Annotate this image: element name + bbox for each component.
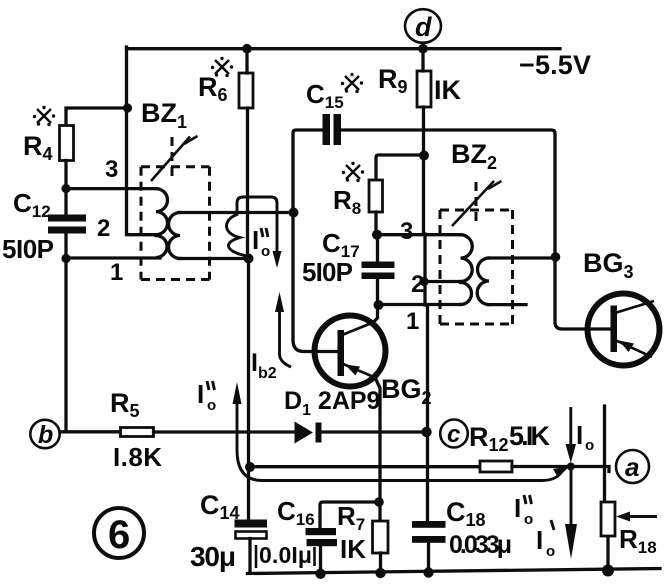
- asterisk R8: [342, 162, 364, 182]
- svg-text:C14: C14: [200, 490, 240, 523]
- svg-text:b: b: [38, 421, 53, 449]
- node junction BZ2 secondary top / BG3 base: [551, 252, 561, 262]
- asterisk R4: [33, 106, 55, 126]
- wire C17 leads: [376, 235, 379, 305]
- transformer BZ1 primary winding: [156, 189, 168, 258]
- svg-text:o: o: [207, 397, 216, 414]
- wire BZ1 secondary top to BG2 base node: [179, 211, 294, 214]
- svg-text:R12: R12: [469, 422, 509, 455]
- asterisk R6: [211, 57, 233, 77]
- svg-text:I.8K: I.8K: [113, 442, 162, 472]
- capacitor C17: [362, 262, 395, 280]
- wire R7 bottom to rail: [379, 553, 382, 574]
- wire R8 bottom to pin3 node: [374, 212, 377, 235]
- svg-text:D1 2AP9: D1 2AP9: [284, 387, 380, 419]
- svg-text:R8: R8: [333, 185, 361, 218]
- capacitor C14 (electrolytic): [235, 520, 268, 539]
- svg-text:o: o: [585, 437, 594, 454]
- annotation current Io'' arrow (left, upward): [233, 382, 570, 481]
- svg-text:R18: R18: [619, 524, 657, 557]
- node junction C12 bottom / BZ1 pin1: [61, 254, 70, 263]
- node junction rail C18: [423, 567, 433, 577]
- node junction R8 / C17 / BZ2 pin3: [372, 230, 382, 240]
- node junction R8 tap: [419, 151, 429, 161]
- svg-text:3: 3: [105, 156, 118, 183]
- svg-text:C16: C16: [277, 496, 315, 529]
- transformer BZ1 adjust arrow: [151, 136, 198, 181]
- wire R12 to node a column: [512, 467, 609, 472]
- wire bottom ground rail: [248, 569, 661, 574]
- transformer BZ2 tuning slug (dashed): [475, 182, 478, 224]
- wire BZ1 pin 1 (bottom): [66, 256, 160, 259]
- wire BZ2 secondary top to column: [488, 256, 556, 259]
- wire BG2 collector up to C17 node: [373, 305, 378, 323]
- wire BZ2 pin 1: [379, 303, 461, 306]
- capacitor C12: [48, 215, 86, 234]
- node junction Rrow start on R6 line: [245, 462, 255, 472]
- resistor R8: [369, 180, 383, 212]
- capacitor C15: [323, 114, 342, 145]
- node b: [30, 420, 59, 449]
- wire R5 to D1: [154, 430, 296, 433]
- svg-text:I: I: [514, 493, 521, 523]
- node a: [616, 450, 649, 483]
- svg-text:BZ1: BZ1: [141, 98, 187, 132]
- label Io': [536, 520, 555, 560]
- svg-text:BG3: BG3: [583, 248, 634, 282]
- svg-text:5I0P: 5I0P: [2, 234, 54, 264]
- svg-text:I: I: [536, 525, 543, 555]
- node junction secondary top / C15 / BG2 base: [289, 208, 299, 218]
- wire D1 cathode to node c: [322, 430, 428, 433]
- transformer BZ1 secondary winding: [169, 213, 181, 259]
- svg-text:−5.5V: −5.5V: [519, 50, 591, 80]
- diode D1: [295, 422, 322, 444]
- svg-text:R5: R5: [110, 388, 140, 421]
- node junction R4 tap: [123, 103, 132, 112]
- svg-text:I: I: [252, 225, 259, 255]
- label C16 value 0.01u: [256, 542, 315, 568]
- node junction BG2 emitter / C16 / R7: [374, 497, 384, 507]
- svg-text:a: a: [625, 452, 639, 482]
- label Io'' (left of arrow): [197, 379, 216, 414]
- resistor R12: [480, 461, 512, 472]
- svg-text:R9: R9: [378, 64, 408, 97]
- wire BG2 emitter down to R7: [375, 378, 380, 503]
- svg-text:R6: R6: [198, 72, 228, 105]
- svg-text:6: 6: [108, 513, 130, 557]
- svg-text:o: o: [261, 243, 270, 260]
- node d: [405, 9, 441, 43]
- node junction rail R18: [602, 565, 614, 577]
- label Io'' (lower right): [514, 493, 533, 528]
- transistor BG2: [315, 316, 386, 387]
- node junction C17 bottom / BG2 collector / BZ2 pin1: [374, 300, 384, 310]
- wire top supply rail: [127, 47, 561, 50]
- wire BZ2 pin 2: [424, 280, 461, 283]
- node junction rail C16: [315, 569, 325, 579]
- wire C15 right rail to BZ2/BG3 column: [341, 130, 611, 329]
- svg-text:BG2: BG2: [381, 374, 432, 408]
- node junction (d) on top rail: [418, 44, 428, 54]
- wire c-row to R12: [250, 465, 480, 468]
- annotation current Io arrow (down): [566, 407, 577, 463]
- annotation arrow into R18: [616, 512, 657, 522]
- transformer BZ2 secondary winding: [477, 258, 489, 305]
- svg-text:1: 1: [110, 259, 123, 286]
- svg-text:5.IK: 5.IK: [509, 421, 551, 451]
- transistor BG3: [588, 294, 660, 366]
- node c: [440, 420, 468, 449]
- node junction BZ2 pin 2: [419, 277, 428, 286]
- node circled 6 (figure number): [94, 508, 144, 558]
- wire C14 bottom to rail: [248, 539, 251, 574]
- svg-text:Ib2: Ib2: [251, 349, 277, 382]
- svg-text:I: I: [576, 420, 583, 450]
- wire C12 bottom: [64, 234, 67, 431]
- annotation current Io' arrow (down, to ground rail): [565, 470, 577, 559]
- svg-text:IK: IK: [340, 534, 366, 564]
- svg-text:o: o: [546, 543, 555, 560]
- annotation current Io'' loop at BZ1 (hop + S curve with down arrow): [227, 197, 282, 268]
- svg-text:2: 2: [97, 215, 110, 242]
- wire node b to R5: [60, 430, 121, 433]
- asterisk C15: [341, 73, 363, 93]
- svg-text:0.033μ: 0.033μ: [449, 531, 512, 559]
- label Io'' (at BZ1): [252, 225, 270, 260]
- wire R18 column: [605, 406, 609, 570]
- wire BZ1 pin 3: [66, 187, 156, 190]
- wire R9 column (d) down to C18: [423, 43, 428, 521]
- svg-text:0.0Iμ: 0.0Iμ: [259, 542, 312, 568]
- resistor R9: [417, 71, 431, 107]
- svg-text:C18: C18: [446, 497, 486, 530]
- svg-text:R7: R7: [337, 501, 365, 534]
- capacitor C18: [412, 521, 446, 543]
- wire R8 branch: [376, 155, 424, 180]
- node junction R6 top rail: [242, 44, 252, 54]
- svg-text:1: 1: [406, 308, 419, 335]
- wire left rail down from top rail: [127, 47, 157, 235]
- wire R4 branch: [66, 108, 128, 126]
- transformer BZ2 primary winding: [461, 235, 473, 305]
- node junction D1 / C18 column (node c): [421, 427, 431, 437]
- svg-text:c: c: [447, 421, 460, 448]
- svg-text:3: 3: [400, 218, 413, 245]
- node junction current summing point: [567, 463, 575, 471]
- svg-text:5I0P: 5I0P: [302, 257, 353, 287]
- label Io: [576, 420, 594, 454]
- svg-text:R4: R4: [23, 131, 53, 164]
- svg-text:o: o: [524, 511, 533, 528]
- transformer BZ1 shield box (dashed): [141, 167, 210, 280]
- svg-text:C15: C15: [306, 79, 344, 112]
- resistor R6: [239, 73, 253, 108]
- svg-text:2: 2: [411, 271, 424, 298]
- svg-text:C12: C12: [13, 188, 51, 221]
- svg-text:I: I: [197, 379, 204, 409]
- wire C16 top link to R7 node: [320, 502, 379, 528]
- node junction secondary bottom / R6 line: [244, 254, 254, 264]
- capacitor C16: [306, 528, 338, 546]
- wire C16 bottom to rail: [319, 546, 322, 574]
- wire BZ2 secondary bottom stub: [488, 303, 526, 306]
- resistor R18: [601, 502, 615, 536]
- resistor R5: [121, 428, 154, 437]
- svg-text:BZ2: BZ2: [451, 139, 497, 173]
- wire R7 top lead: [378, 502, 381, 521]
- transformer BZ2 shield box (dashed): [440, 210, 513, 324]
- transformer BZ2 adjust arrow: [452, 181, 502, 226]
- resistor R7: [373, 521, 389, 553]
- resistor R4: [60, 126, 74, 161]
- wire R6 vertical line: [247, 49, 249, 520]
- wire C15 left to BG2 base riser: [293, 130, 338, 352]
- svg-text:IK: IK: [434, 75, 462, 105]
- wire C18 bottom to rail: [427, 543, 430, 573]
- node junction C12 top / pin3: [61, 184, 70, 193]
- wire BZ2 pin 3: [377, 233, 461, 236]
- wire R4 bottom to C12: [64, 161, 67, 215]
- transformer BZ1 tuning slug (dashed): [171, 137, 174, 179]
- annotation current Ib2 arrow: [275, 292, 291, 367]
- svg-text:d: d: [415, 12, 432, 42]
- svg-text:30μ: 30μ: [190, 541, 236, 572]
- wire BZ1 secondary bottom: [179, 257, 249, 260]
- node junction rail R7: [375, 568, 385, 578]
